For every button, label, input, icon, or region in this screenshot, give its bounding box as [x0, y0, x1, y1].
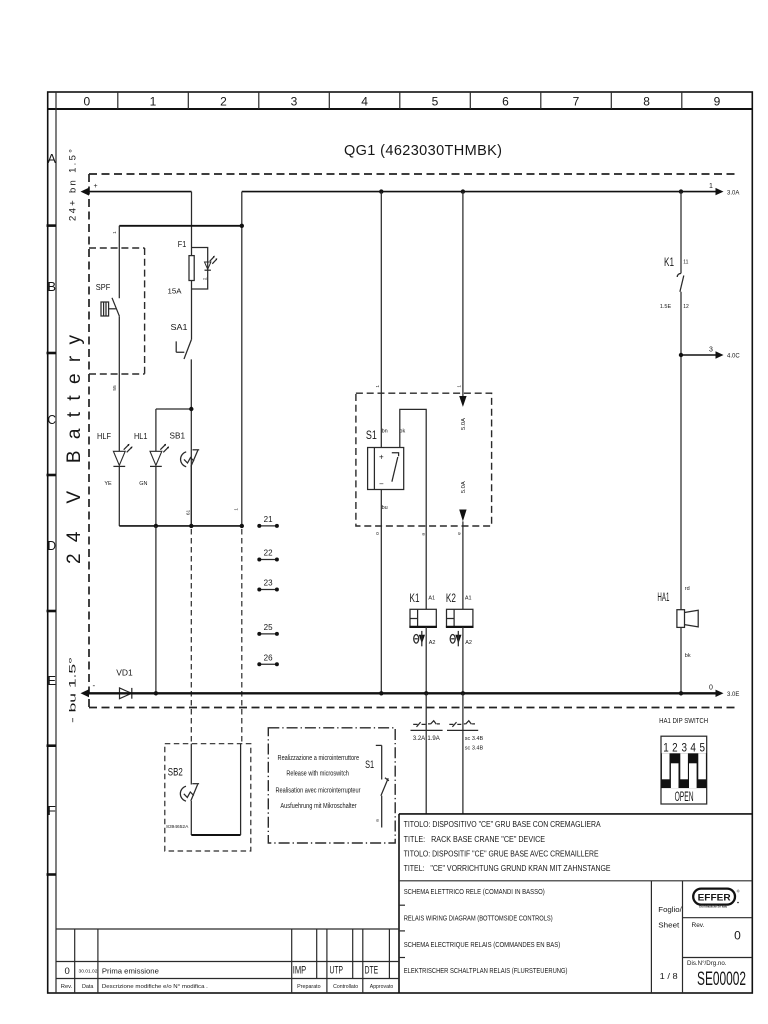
svg-text:bk: bk	[685, 653, 691, 659]
pushbutton SB2	[166, 744, 240, 835]
junctions y526	[154, 524, 158, 528]
svg-text:SA1: SA1	[171, 322, 188, 332]
dashed wire x242 to SB2	[241, 529, 243, 744]
svg-text:0: 0	[709, 685, 713, 692]
svg-text:+: +	[94, 183, 98, 190]
terminal 26	[257, 653, 279, 666]
relay coil K2	[446, 593, 474, 694]
svg-text:UTP: UTP	[329, 965, 343, 977]
svg-text:Controllato: Controllato	[333, 984, 358, 990]
sheet cell	[658, 907, 682, 981]
node 1 arrow 3.0A	[709, 183, 739, 196]
svg-text:Ausfuehrung mit Mikroschalter: Ausfuehrung mit Mikroschalter	[280, 803, 357, 810]
svg-text:K1: K1	[664, 257, 674, 269]
svg-text:-: -	[93, 681, 96, 690]
wire e with fuse arrows 5.0A	[459, 192, 467, 610]
switch S1 microswitch	[365, 745, 389, 827]
svg-text:Preparato: Preparato	[297, 984, 321, 990]
title block titles	[404, 820, 611, 873]
svg-text:VD1: VD1	[116, 668, 133, 678]
svg-text:3: 3	[291, 94, 298, 108]
svg-text:F1: F1	[178, 239, 187, 249]
svg-text:Prima emissione: Prima emissione	[102, 967, 159, 976]
svg-text:1: 1	[709, 183, 713, 190]
wire bn	[380, 192, 382, 448]
battery dashed outline	[89, 174, 736, 708]
battery S1	[366, 428, 404, 490]
wire top rail left	[88, 191, 192, 193]
svg-text:SE00002: SE00002	[697, 969, 746, 990]
svg-text:Rev.: Rev.	[692, 922, 705, 929]
revision header row	[61, 984, 394, 990]
svg-text:TITEL: "CE" VORRICHTUNG GRUN: TITEL: "CE" VORRICHTUNG GRUND KRAN MIT Z…	[404, 864, 611, 873]
svg-text:61: 61	[185, 510, 191, 516]
svg-text:Realisation avec microinterrup: Realisation avec microinterrupteur	[276, 787, 362, 794]
svg-text:e: e	[458, 532, 463, 535]
junctions top rail	[379, 189, 383, 193]
svg-text:23: 23	[264, 579, 273, 588]
S1 dashed box	[356, 393, 492, 526]
svg-text:21: 21	[264, 515, 273, 524]
svg-text:15A: 15A	[168, 288, 182, 295]
svg-text:8: 8	[643, 94, 650, 108]
svg-text:7: 7	[573, 94, 580, 108]
svg-text:GN: GN	[139, 481, 147, 487]
svg-text:K1: K1	[410, 593, 420, 605]
svg-text:ELEKTRISCHER SCHALTPLAN RELAIS: ELEKTRISCHER SCHALTPLAN RELAIS (FLURSTEU…	[404, 968, 568, 975]
svg-text:C: C	[47, 412, 56, 427]
horn HA1	[657, 586, 698, 693]
svg-text:bu: bu	[382, 505, 388, 511]
svg-text:+: +	[379, 453, 384, 462]
svg-text:- bu 1.5°: - bu 1.5°	[67, 657, 78, 723]
rev cell	[692, 922, 742, 943]
svg-text:4: 4	[361, 94, 368, 108]
svg-text:3: 3	[709, 347, 713, 354]
svg-text:3.0A: 3.0A	[727, 190, 739, 196]
svg-text:HA1: HA1	[657, 592, 669, 604]
svg-text:rd: rd	[203, 277, 206, 281]
junction jog	[189, 407, 193, 411]
svg-text:1: 1	[234, 508, 240, 511]
svg-text:3.2A: 3.2A	[413, 736, 425, 742]
title block frame	[399, 814, 752, 993]
svg-text:rd: rd	[685, 586, 690, 592]
LED HLF	[97, 432, 133, 526]
svg-text:0: 0	[84, 94, 91, 108]
svg-text:25: 25	[264, 623, 273, 632]
svg-text:SPF: SPF	[96, 283, 111, 292]
svg-text:24+ bn 1.5°: 24+ bn 1.5°	[67, 149, 78, 221]
svg-text:Sheet: Sheet	[658, 923, 679, 930]
svg-text:S1: S1	[365, 759, 374, 771]
svg-text:A: A	[47, 151, 56, 166]
svg-text:Gru Idrauliche Srl Italy: Gru Idrauliche Srl Italy	[699, 905, 727, 909]
svg-text:30.01.02: 30.01.02	[79, 969, 99, 974]
svg-text:0: 0	[375, 532, 381, 535]
svg-text:8394652A: 8394652A	[166, 824, 188, 829]
diode VD1	[116, 668, 133, 699]
wire top rail right	[242, 191, 716, 193]
svg-text:Descrizione modifiche e/o N° m: Descrizione modifiche e/o N° modifica .	[102, 984, 209, 990]
svg-text:QG1 (4623030THMBK): QG1 (4623030THMBK)	[344, 143, 502, 159]
svg-text:TITOLO: DISPOSITIVO "CE" GRU B: TITOLO: DISPOSITIVO "CE" GRU BASE CON CR…	[404, 820, 602, 829]
svg-text:D: D	[47, 538, 56, 553]
switch SA1	[171, 322, 192, 359]
LED HL1	[134, 409, 169, 526]
svg-text:SCHEMA ELECTRIQUE RELAIS (COMM: SCHEMA ELECTRIQUE RELAIS (COMMANDES EN B…	[404, 942, 561, 949]
svg-text:HL1: HL1	[134, 432, 148, 441]
contact K1	[660, 192, 689, 610]
svg-text:5: 5	[700, 743, 706, 755]
revision row 0	[65, 965, 379, 978]
svg-text:Realizzazione a microinterrutt: Realizzazione a microinterruttore	[278, 755, 360, 762]
terminal 22	[257, 549, 279, 562]
svg-text:55: 55	[112, 385, 118, 391]
svg-text:bn: bn	[382, 429, 388, 435]
svg-text:E: E	[47, 673, 56, 688]
svg-text:4.0C: 4.0C	[727, 354, 740, 360]
svg-text:A1: A1	[428, 595, 435, 601]
svg-text:−: −	[379, 480, 384, 489]
junction x242 y226	[240, 224, 244, 228]
terminal 23	[257, 579, 279, 592]
fuse F1	[168, 239, 218, 295]
svg-text:RELAIS WIRING DIAGRAM (BOTTOMS: RELAIS WIRING DIAGRAM (BOTTOMSIDE CONTRO…	[404, 916, 553, 923]
svg-text:SB2: SB2	[168, 767, 183, 779]
wire vertical feed x242	[241, 192, 243, 526]
svg-text:2: 2	[220, 94, 227, 108]
svg-text:A2: A2	[429, 640, 436, 646]
svg-text:sc 3.4B: sc 3.4B	[465, 736, 484, 742]
EFFER logo	[693, 889, 740, 909]
svg-text:F: F	[47, 803, 56, 818]
svg-text:26: 26	[264, 653, 273, 662]
pushbutton SB2 dashed box	[165, 744, 251, 851]
svg-text:1.5E: 1.5E	[660, 304, 672, 310]
svg-text:SCHEMA ELETTRICO RELE (COMANDI: SCHEMA ELETTRICO RELE (COMANDI IN BASSO)	[404, 889, 545, 896]
svg-text:4: 4	[690, 743, 696, 755]
svg-text:B: B	[47, 279, 56, 294]
svg-text:Rev.: Rev.	[61, 984, 73, 990]
wire HL1 to bottom rail	[155, 526, 157, 693]
svg-text:YE: YE	[104, 481, 112, 487]
svg-text:2: 2	[672, 743, 678, 755]
svg-text:Data: Data	[82, 984, 94, 990]
wire bk jog	[400, 409, 426, 609]
svg-text:DTE: DTE	[365, 965, 379, 977]
svg-text:TITLE: RACK BASE CRANE "CE": TITLE: RACK BASE CRANE "CE" DEVICE	[404, 835, 545, 844]
svg-text:3.0E: 3.0E	[727, 692, 739, 698]
svg-text:Dis.N°/Drg.no.: Dis.N°/Drg.no.	[687, 959, 727, 967]
wire bottom rail	[88, 692, 716, 694]
svg-text:HLF: HLF	[97, 432, 111, 441]
wire y226	[119, 225, 242, 227]
SPF dashed box	[89, 248, 145, 374]
wire bu	[380, 490, 382, 694]
pushbutton SB1	[170, 431, 200, 526]
DIP switch HA1	[659, 716, 708, 804]
relay coil K1	[409, 593, 437, 694]
svg-text:1: 1	[375, 385, 381, 388]
svg-text:®: ®	[737, 889, 740, 894]
wire y526	[119, 525, 242, 527]
node 0 arrow 3.0E	[709, 685, 739, 698]
wire F1 branch vertical	[190, 192, 192, 526]
svg-text:TITOLO: DISPOSITIF "CE" GRUE B: TITOLO: DISPOSITIF "CE" GRUE BASE AVEC C…	[404, 850, 599, 859]
wire HL1 jog	[156, 408, 191, 410]
svg-text:5.0A: 5.0A	[461, 481, 467, 493]
node 3 arrow 4.0C	[679, 347, 741, 360]
terminal 21	[257, 515, 279, 528]
svg-text:0: 0	[734, 929, 741, 943]
svg-text:K2: K2	[446, 593, 456, 605]
terminal links 3.2A 1.9A	[411, 721, 443, 742]
svg-text:1.9A: 1.9A	[427, 736, 439, 742]
wire K2 coil to terminals	[462, 693, 464, 814]
svg-text:HA1 DIP SWITCH: HA1 DIP SWITCH	[659, 716, 708, 725]
terminal 25	[257, 623, 279, 636]
svg-text:1 / 8: 1 / 8	[660, 972, 679, 981]
svg-text:SB1: SB1	[170, 431, 186, 440]
junctions bottom rail	[154, 691, 158, 695]
svg-text:11: 11	[683, 260, 688, 266]
svg-text:22: 22	[264, 549, 273, 558]
svg-text:12: 12	[683, 304, 689, 310]
svg-text:a: a	[422, 533, 427, 536]
revision table frame	[56, 929, 399, 993]
title block language rows	[404, 889, 568, 975]
svg-text:1: 1	[456, 385, 462, 388]
svg-text:1: 1	[663, 743, 669, 755]
dashed wire SB1 to SB2	[190, 529, 192, 744]
node battery minus arrow	[81, 681, 96, 697]
svg-text:9: 9	[714, 94, 721, 108]
svg-text:5: 5	[432, 94, 439, 108]
svg-text:0: 0	[65, 966, 70, 977]
svg-text:Foglio/: Foglio/	[658, 907, 682, 914]
svg-text:IMP: IMP	[293, 965, 307, 977]
note microswitch box	[268, 728, 395, 843]
svg-text:A2: A2	[465, 640, 472, 646]
svg-text:OPEN: OPEN	[675, 789, 694, 804]
switch SPF	[96, 226, 120, 451]
svg-text:3: 3	[682, 743, 688, 755]
node battery plus arrow	[81, 183, 98, 196]
svg-text:a: a	[376, 819, 381, 822]
svg-text:6: 6	[502, 94, 509, 108]
svg-text:5.0A: 5.0A	[461, 418, 467, 430]
svg-text:A1: A1	[465, 595, 472, 601]
svg-text:1: 1	[150, 94, 157, 108]
svg-text:S1: S1	[366, 428, 377, 442]
drawing number cell	[687, 959, 746, 990]
svg-text:Approvato: Approvato	[370, 984, 394, 990]
terminal links sc 3.4B	[447, 721, 483, 752]
wire K1 coil to terminals	[425, 693, 427, 814]
svg-text:EFFER: EFFER	[698, 893, 731, 904]
svg-text:Release with microswitch: Release with microswitch	[286, 770, 349, 777]
svg-text:1: 1	[112, 231, 118, 234]
svg-text:sc 3.4B: sc 3.4B	[465, 746, 484, 752]
